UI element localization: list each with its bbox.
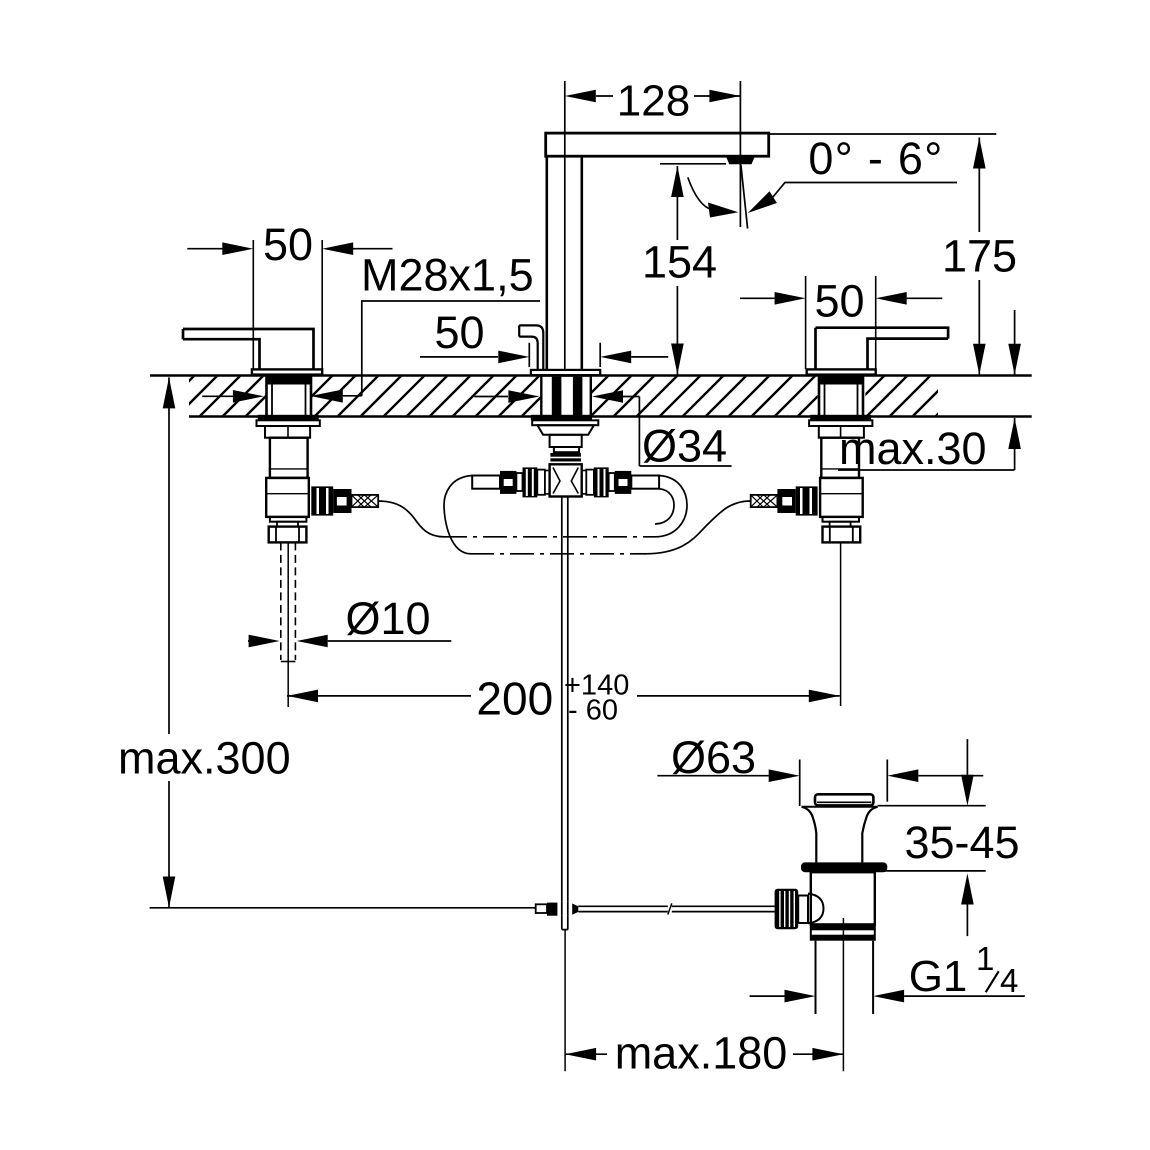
label 0-6 leader line (773, 183, 958, 198)
water stream tilted 6deg line (741, 165, 748, 229)
tee left hose end fitting (500, 471, 516, 494)
tee right collar (609, 473, 615, 491)
svg-text:max.300: max.300 (118, 733, 291, 784)
hose centerline upper dash-dot (443, 536, 655, 538)
svg-text:35-45: 35-45 (904, 817, 1019, 868)
dimension 063 extension lines (799, 760, 801, 807)
pop-up rod hook above counter (519, 325, 543, 370)
dimension 175 line upper (978, 138, 980, 233)
dimension 200 line right (637, 695, 840, 697)
right valve lower flange (823, 517, 860, 522)
dimension 35-45 lower line (966, 905, 968, 937)
left valve elbow (266, 478, 309, 517)
pop-up horizontal rod continued (672, 905, 775, 907)
right valve body (821, 438, 859, 478)
svg-text:4: 4 (1000, 962, 1018, 999)
tee right hose tube (631, 476, 659, 489)
right valve braided hose (751, 495, 778, 507)
hose curve from tee left port (444, 476, 472, 554)
left handle lever and body outline (183, 329, 314, 369)
right handle lever and body outline (816, 328, 949, 370)
pop-up horizontal rod (578, 905, 668, 907)
drain pop-up cap (815, 794, 873, 805)
tee right hose end fitting (615, 471, 632, 494)
dimension max.30 leader underline (838, 469, 1015, 471)
spout dimension 50 extension lines (528, 343, 530, 367)
tee left hose tube (472, 476, 500, 489)
swivel arc arrow (708, 203, 738, 218)
dimension max.180 line (565, 1053, 607, 1055)
dimension max.300 line lower (168, 781, 170, 908)
pop-up rod vertical below tee (561, 497, 563, 902)
spout shank flange below counter (531, 415, 592, 421)
dimension 010 line and arrows (248, 640, 250, 642)
spout column right edge (580, 156, 583, 370)
right valve neck (819, 426, 864, 438)
drain centerline (842, 918, 844, 1071)
drain body bottom bands (811, 924, 875, 930)
rod break symbol (668, 903, 672, 914)
extension line from spout top to 175 dimension (769, 133, 997, 135)
drain knob stem (798, 896, 808, 924)
left valve braided hose (352, 495, 379, 507)
spout column inner line / 128 left extension line (564, 81, 566, 370)
spout column left edge (545, 156, 548, 370)
drain ball joint (808, 894, 824, 924)
hose curve from left valve (378, 501, 444, 537)
dimension 35-45 upper line (966, 739, 968, 775)
pop-up rod clamp (536, 904, 547, 913)
svg-text:Ø63: Ø63 (671, 732, 756, 783)
svg-text:1: 1 (976, 940, 994, 977)
svg-text:M28x1,5: M28x1,5 (361, 250, 534, 301)
right valve elbow (820, 478, 863, 517)
svg-text:154: 154 (642, 237, 717, 288)
drain o-ring seal (801, 862, 887, 872)
left shank thread arrows (202, 395, 233, 397)
svg-text:max.30: max.30 (839, 423, 987, 474)
tee body (550, 464, 582, 496)
left valve centerline extension (287, 542, 289, 707)
svg-text:50: 50 (814, 275, 864, 326)
svg-text:- 60: - 60 (568, 695, 618, 727)
label M28x1,5 underline (361, 300, 540, 302)
dimension 35-45 upper extension line (878, 805, 986, 807)
dimension max.30 upper line (1014, 310, 1016, 375)
tee left collar (516, 473, 522, 491)
svg-text:50: 50 (434, 307, 484, 358)
hose centerline lower dash-dot (470, 553, 646, 555)
pop-up rod dashed outline below left valve (280, 542, 282, 660)
countertop bottom line (189, 415, 1032, 418)
left handle base plate (252, 369, 322, 374)
horizontal reference line to max.300 (150, 907, 536, 909)
svg-text:128: 128 (617, 76, 690, 125)
drain trumpet flange sides (802, 807, 817, 863)
dimension max.300 line upper (168, 377, 170, 734)
left valve body (270, 438, 308, 478)
tee left hex (537, 470, 545, 495)
right handle base plate (807, 369, 876, 374)
hose curve from right valve (645, 501, 751, 554)
right valve compression nut (823, 527, 861, 543)
left valve neck (265, 426, 310, 438)
dimension max.30 lower line (1014, 418, 1016, 470)
dimension 128 line (596, 95, 613, 97)
dimension 063 line (657, 775, 768, 777)
dimension 154 line upper (676, 166, 678, 240)
dimension 154 extension line under aerator (660, 163, 726, 165)
label M28x1,5 leader (361, 301, 363, 396)
right handle dimension 50 line and arrows (740, 297, 775, 299)
spout shank thread arrows (474, 396, 508, 398)
right valve outlet nut (796, 486, 818, 515)
spout base plate (531, 370, 600, 375)
spout dimension 50 line and arrows (420, 356, 498, 358)
spout centerline extension to max.180 (564, 930, 566, 1072)
tee left compression nut (523, 467, 538, 497)
right valve centerline extension (840, 542, 842, 706)
svg-text:200: 200 (476, 673, 553, 725)
left valve compression nut (269, 527, 307, 543)
spout threaded shank in counter (541, 376, 591, 417)
swivel arc (688, 177, 712, 209)
svg-text:50: 50 (263, 219, 313, 270)
svg-text:G1: G1 (909, 952, 968, 1001)
right handle dimension 50 extension lines (805, 276, 807, 369)
dimension 200 line left (287, 695, 471, 697)
left valve lower flange (270, 517, 307, 522)
svg-text:Ø34: Ø34 (642, 421, 727, 472)
label 034 leader (638, 397, 640, 467)
svg-text:175: 175 (942, 231, 1017, 282)
svg-text:0° - 6°: 0° - 6° (808, 133, 943, 184)
dimension 175 line lower (978, 280, 980, 375)
water stream vertical 0deg / 128 right extension line (739, 81, 741, 227)
dimension 154 line lower (676, 286, 678, 375)
tee right compression nut (594, 467, 609, 497)
left handle dimension 50 line and arrows (187, 248, 222, 250)
right handle threaded shank in counter (819, 376, 863, 417)
pop-up rod lower stub (561, 916, 563, 930)
countertop top surface line (150, 374, 1032, 377)
left handle threaded shank in counter (267, 376, 312, 417)
left valve flange (257, 420, 320, 426)
drain tailpipe (815, 941, 817, 1014)
left valve locknut dark band (258, 415, 319, 421)
spout lower trapezoid collar (537, 425, 594, 435)
left handle dimension 50 extension lines (252, 240, 254, 369)
right valve hose fitting (777, 489, 795, 513)
label 0-6 leader arrow (748, 191, 777, 213)
spout connector block (550, 435, 582, 447)
left valve outlet nut (311, 486, 333, 515)
left valve hose fitting (333, 489, 351, 513)
svg-text:max.180: max.180 (615, 1028, 788, 1079)
dimension 35-45 lower extension line (881, 870, 985, 872)
dimension G1 1/4 line (750, 995, 785, 997)
right valve flange (809, 420, 872, 426)
aerator outlet (726, 157, 755, 165)
tee right hex (586, 470, 594, 495)
drain body (811, 872, 875, 924)
svg-text:Ø10: Ø10 (345, 593, 430, 644)
hose curve from tee right port (655, 476, 687, 537)
right valve locknut dark band (810, 415, 871, 421)
spout connector narrow collar (554, 447, 579, 452)
spout connector dark rings (550, 453, 581, 462)
spout horizontal bar (546, 133, 769, 156)
drain knurled knob (775, 889, 799, 929)
drain flange top edge (802, 806, 878, 808)
